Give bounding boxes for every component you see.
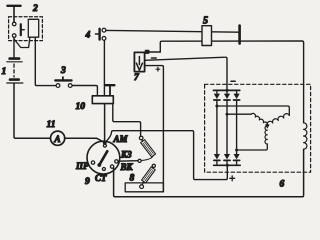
fuse 8 lower body bbox=[142, 167, 156, 183]
wire regulator 7 output to field winding (upper feed) bbox=[160, 41, 303, 123]
diode VD5 bbox=[224, 154, 230, 165]
junction plus bus bbox=[226, 164, 229, 167]
contact pin lower of switch 2 bbox=[12, 34, 16, 38]
stator winding lower phase bbox=[265, 126, 267, 144]
svg-text:3: 3 bbox=[60, 66, 66, 76]
svg-text:10: 10 bbox=[76, 102, 86, 112]
junction minus bus bbox=[226, 89, 229, 92]
switch 4 blade bbox=[95, 29, 99, 40]
regulator 7 body bbox=[134, 52, 144, 71]
KZ contact pin bbox=[115, 160, 118, 163]
PR contact pin bbox=[91, 161, 94, 164]
wire switch 4 down to ignition coil 10 bbox=[103, 40, 105, 96]
wire battery to ammeter bbox=[14, 84, 50, 139]
field winding of alternator 6 bbox=[304, 123, 307, 149]
pushbutton 3 bbox=[55, 77, 72, 87]
junction phase A bbox=[215, 105, 218, 108]
wire phase B to stator left arm bbox=[229, 113, 252, 115]
wire junction to winding left leg bbox=[14, 38, 30, 48]
ignition coil 10 high-voltage terminal bbox=[106, 85, 115, 96]
wire switch2 lower pin to battery bbox=[13, 38, 15, 59]
stator star junction bbox=[265, 124, 270, 128]
switch 4 upper pin bbox=[102, 28, 106, 32]
rotor lever of switch 9 bbox=[97, 151, 107, 167]
svg-text:8: 8 bbox=[130, 174, 135, 184]
wire phase A to stator right arm bbox=[218, 106, 289, 115]
VK contact pin bbox=[110, 165, 113, 168]
diode VD3 bbox=[234, 90, 240, 154]
starter switch S2 dashed enclosure bbox=[9, 17, 43, 41]
wire regulator minus to rectifier negative bus bbox=[145, 57, 227, 89]
fuse 8 lower terminal bottom bbox=[140, 185, 144, 189]
wire coil 10 to fuse 8 upper bbox=[113, 104, 141, 136]
svg-text:11: 11 bbox=[47, 120, 56, 130]
resistor 5 bbox=[202, 26, 212, 46]
plus label at regulator bbox=[156, 67, 160, 71]
AM junction blob bbox=[103, 141, 107, 145]
svg-text:6: 6 bbox=[280, 180, 285, 190]
svg-text:ВК: ВК bbox=[120, 162, 134, 172]
battery 1 plate long top cell bbox=[7, 61, 22, 63]
junction phase B bbox=[226, 113, 229, 116]
svg-text:9: 9 bbox=[85, 177, 90, 187]
fuse 8 upper leads bbox=[141, 140, 153, 161]
alternator 6 dashed enclosure bbox=[205, 84, 311, 172]
fuse 8 upper terminal bottom bbox=[138, 159, 141, 162]
battery 1 plate short top cell bbox=[10, 57, 20, 60]
svg-text:АМ: АМ bbox=[113, 134, 129, 144]
ignition coil 10 body bbox=[92, 96, 113, 104]
stator winding left phase bbox=[251, 114, 267, 126]
svg-text:ПР: ПР bbox=[75, 161, 89, 171]
regulator 7 output terminal square bbox=[145, 50, 148, 53]
diode VD1 bbox=[214, 90, 220, 154]
svg-text:2: 2 bbox=[32, 4, 38, 14]
diode VD4 bbox=[214, 154, 220, 165]
battery 1 middle cells dashed link bbox=[13, 64, 15, 77]
rectifier negative bus bbox=[213, 89, 239, 91]
movable contact bar of switch 2 bbox=[21, 24, 24, 35]
wire coil 10 to AM junction bbox=[104, 104, 106, 142]
AM contact pin bbox=[103, 144, 106, 147]
fuse block housing bbox=[125, 183, 163, 192]
starter pedal terminal of switch 2 bbox=[7, 6, 20, 22]
svg-text:СТ: СТ bbox=[95, 173, 107, 183]
fuse 8 upper body bbox=[141, 140, 156, 157]
battery 1 plate long bottom cell bbox=[7, 82, 23, 84]
svg-text:4: 4 bbox=[85, 31, 91, 41]
wire regulator square terminal up to field feed bbox=[149, 51, 161, 53]
wire ammeter to AM junction bbox=[65, 138, 105, 143]
svg-text:КЗ: КЗ bbox=[120, 149, 132, 159]
wire rectifier plus output to AM junction bbox=[105, 131, 228, 180]
wire VK contact to minus return bus bbox=[114, 149, 304, 197]
svg-text:7: 7 bbox=[134, 73, 140, 83]
ST contact pin bbox=[102, 168, 105, 171]
wire KZ contact to fuse 8 upper bbox=[118, 160, 138, 163]
switch 4 lower pin bbox=[102, 37, 106, 41]
wire phase C to stator lower arm bbox=[238, 144, 267, 150]
fuse 8 lower leads bbox=[142, 167, 153, 185]
stator winding right phase bbox=[267, 114, 289, 126]
svg-text:1: 1 bbox=[2, 67, 7, 77]
regulator 7 internal contact symbol bbox=[136, 57, 142, 71]
fuse 8 upper terminal top bbox=[139, 136, 143, 140]
wire winding right leg to pushbutton 3 bbox=[35, 37, 56, 85]
diode VD2 bbox=[224, 90, 230, 154]
wire switch 4 to terminal bar through resistor 5 bbox=[106, 30, 239, 32]
wire pushbutton to ignition coil 10 bbox=[72, 86, 97, 96]
minus label at rectifier input bbox=[231, 80, 235, 82]
svg-text:5: 5 bbox=[203, 16, 208, 27]
wire regulator plus down to fuse block bbox=[145, 66, 164, 192]
diode VD6 bbox=[234, 154, 240, 165]
fuse 8 lower terminal top bbox=[152, 164, 155, 167]
rectifier positive bus bbox=[214, 164, 241, 166]
battery 1 plate short bottom cell bbox=[10, 78, 19, 81]
contact pin upper of switch 2 bbox=[12, 22, 16, 26]
plus label at rectifier output bbox=[230, 176, 235, 181]
ammeter 11 bbox=[51, 131, 65, 145]
minus label at regulator bbox=[152, 57, 157, 59]
terminal bar at end of wire 5 bbox=[238, 26, 241, 44]
solenoid winding of switch 2 bbox=[28, 19, 38, 37]
junction phase C bbox=[235, 149, 238, 152]
ignition switch 9 body bbox=[87, 141, 120, 174]
svg-text:A: A bbox=[53, 135, 60, 145]
